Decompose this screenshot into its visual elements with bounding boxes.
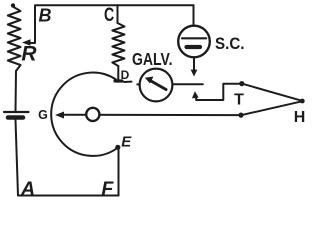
svg-text:H: H [294,109,306,126]
svg-text:R: R [21,43,37,66]
svg-text:S.C.: S.C. [215,34,245,53]
svg-text:F: F [101,178,114,200]
svg-text:A: A [20,178,35,200]
svg-text:T: T [234,92,244,109]
svg-text:D: D [121,68,130,82]
svg-text:E: E [121,133,132,150]
svg-text:C: C [104,5,114,26]
svg-text:GALV.: GALV. [132,49,173,69]
svg-text:G: G [38,108,48,122]
svg-text:B: B [39,6,52,26]
